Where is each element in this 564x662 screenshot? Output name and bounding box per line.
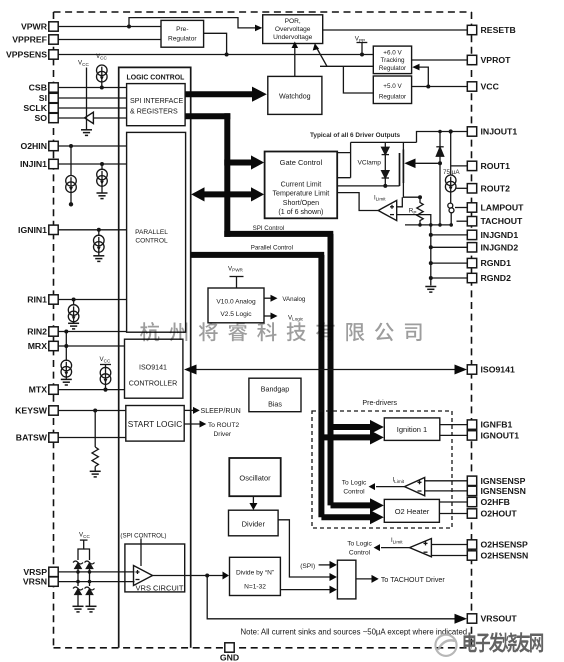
node CSB junction [100, 86, 104, 90]
pin INJGND1 [467, 230, 518, 240]
arrow VLogic [271, 313, 278, 320]
svg-text:Temperature Limit: Temperature Limit [273, 190, 330, 198]
wire SI [58, 97, 126, 99]
wire drain to rail [402, 142, 404, 150]
current source CSB pull-up [97, 65, 108, 82]
pin SI [39, 93, 58, 103]
wire RESETB [323, 29, 468, 31]
zener clamp string [382, 142, 389, 186]
wire RGND2 stub [431, 277, 468, 279]
svg-text:VCC: VCC [481, 82, 500, 92]
svg-text:INJGND2: INJGND2 [481, 242, 519, 252]
svg-text:Current Limit: Current Limit [281, 180, 322, 188]
pin VPWR [21, 22, 58, 32]
IC boundary dashed border [54, 12, 472, 648]
pin INJOUT1 [467, 127, 517, 137]
node O2HIN sink end dot [69, 202, 73, 206]
node INJGND2 [429, 245, 433, 249]
node VRSOUT branch [205, 574, 209, 578]
svg-text:ROUT2: ROUT2 [481, 183, 511, 193]
svg-text:To Logic: To Logic [342, 479, 367, 486]
pin BATSW [16, 433, 58, 443]
pin IGNSENSN [467, 486, 526, 496]
block O2 Heater [384, 499, 439, 522]
wire Vcc bar to source [105, 365, 107, 370]
wire SLEEP/RUN out [184, 409, 194, 411]
wire MTX [58, 389, 124, 391]
wire VRSP [58, 571, 134, 573]
wire INJOUT1 riser [417, 132, 468, 143]
svg-text:VClamp: VClamp [358, 160, 382, 167]
pin SCLK [23, 103, 58, 113]
arrow into POR [255, 25, 262, 32]
arrow right into gate control [251, 187, 264, 201]
wire 75uA source bottom [450, 190, 452, 203]
svg-text:ISO9141: ISO9141 [139, 364, 167, 372]
block Divide by N [230, 557, 281, 595]
arrow into divider [249, 503, 257, 510]
block Ignition 1 [384, 418, 440, 441]
ground below SO buffer [81, 130, 92, 136]
pin VRSOUT [467, 614, 517, 624]
bus SPI lower horizontal [186, 113, 231, 119]
wire VPWR [58, 26, 161, 28]
node rail 75uA [449, 223, 453, 227]
svg-text:N=1-32: N=1-32 [244, 584, 266, 591]
arrow SPI into mux [330, 561, 337, 569]
wire VPWR to POR [129, 18, 256, 28]
svg-text:SO: SO [34, 113, 47, 123]
svg-text:(SPI CONTROL): (SPI CONTROL) [120, 533, 166, 540]
current source RIN2 sink [61, 360, 72, 377]
svg-text:VRSOUT: VRSOUT [481, 614, 518, 624]
wire IGNSENSP [425, 480, 468, 482]
wire O2HFB [439, 501, 467, 503]
wire source rail bottom [405, 224, 451, 226]
wire gate control to top rail [337, 142, 350, 177]
wire VLogic out [264, 315, 272, 317]
node diode top [438, 130, 442, 134]
wire O2HIN sink tail [70, 191, 72, 203]
arrow into O2 upper [370, 498, 384, 512]
svg-text:Divide by “N”: Divide by “N” [236, 570, 274, 577]
svg-text:Regulator: Regulator [379, 65, 406, 72]
svg-text:INJOUT1: INJOUT1 [481, 127, 518, 137]
wire INJIN1 sink [101, 164, 103, 170]
pin VCC [467, 82, 499, 92]
buffer on SO line [85, 112, 94, 123]
node clamp VRSP left [76, 570, 80, 574]
pin O2HOUT [467, 509, 517, 519]
pin VPPREF [12, 35, 58, 45]
wire TACHOUT stub [457, 220, 468, 222]
transient clamp lower right [85, 587, 95, 606]
wire RIN1 sink tail [73, 320, 75, 324]
wire VPWR to regulator block [236, 277, 238, 289]
transistor Q1 channel bar [402, 150, 404, 184]
wire O2HIN [58, 145, 126, 147]
svg-text:Divider: Divider [242, 519, 266, 528]
bus Parallel Control horizontal [191, 252, 325, 258]
bus arrow O2 upper [331, 502, 372, 508]
block V10.0 Analog V2.5 Logic [208, 288, 264, 323]
svg-text:Bandgap: Bandgap [261, 386, 289, 394]
bus SPI Control horizontal [224, 231, 333, 237]
svg-text:(1 of 6 shown): (1 of 6 shown) [278, 208, 323, 216]
wire ground bus vertical [430, 225, 432, 286]
wire SO [58, 117, 84, 119]
wire IGNFB1 [440, 424, 468, 426]
node rail minus [429, 223, 433, 227]
block Pre-Regulator [161, 20, 204, 47]
arrow MOSFET body [404, 159, 415, 169]
svg-text:ROUT1: ROUT1 [481, 161, 511, 171]
node clamp VRSP right [88, 570, 92, 574]
wire VAnalog out [264, 297, 272, 299]
node Rp top [418, 195, 422, 199]
ground KEYSW [90, 471, 101, 477]
wire RIN2 sink vertical [65, 332, 67, 362]
arrow into VRSOUT pin [455, 614, 468, 624]
svg-text:Driver: Driver [214, 431, 232, 438]
arrow to logic control O2 [374, 544, 380, 551]
node RIN1 junction [72, 298, 76, 302]
svg-text:CSB: CSB [29, 83, 47, 93]
transient clamp upper left [73, 561, 83, 572]
pin O2HSENSN [467, 551, 528, 561]
svg-text:O2 Heater: O2 Heater [395, 507, 430, 516]
wire VPP sense rail right [320, 65, 373, 67]
svg-text:To Logic: To Logic [347, 540, 372, 547]
current source INJIN1 sink [97, 169, 108, 186]
node VPWR branch [127, 25, 131, 29]
wire branch to +5 regulator [343, 66, 373, 93]
ground VRS clamp left [73, 606, 84, 612]
node clamp VRSN left [76, 580, 80, 584]
pin RIN2 [27, 327, 58, 337]
svg-text:Regulator: Regulator [168, 36, 197, 43]
svg-text:+5.0 V: +5.0 V [383, 83, 402, 90]
svg-text:O2HOUT: O2HOUT [481, 509, 518, 519]
wire VRS output [153, 575, 224, 577]
svg-text:Ignition 1: Ignition 1 [397, 425, 427, 434]
svg-text:Gate Control: Gate Control [280, 158, 323, 167]
ground RIN2 [61, 379, 72, 385]
wire clamp feed right [84, 549, 90, 560]
wire comparator output to gate control [337, 193, 378, 211]
current source MTX pull-up [100, 367, 111, 384]
svg-text:Pre-: Pre- [176, 26, 188, 33]
svg-text:VRSN: VRSN [23, 577, 47, 587]
wire IGNIN1 [58, 229, 126, 231]
arrow watchdog to POR [292, 42, 299, 49]
wire Vpp to rail [361, 43, 363, 55]
block START LOGIC [126, 406, 184, 442]
wire diagonal into POR [317, 49, 327, 67]
node RGND1 [429, 261, 433, 265]
current source 75uA [445, 175, 456, 192]
wire O2 comparator output [381, 547, 410, 549]
svg-text:+6.0 V: +6.0 V [383, 50, 402, 57]
arrow into gate control [251, 155, 264, 169]
wire RIN2 sink tail [65, 375, 67, 379]
svg-text:VRS CIRCUIT: VRS CIRCUIT [136, 584, 184, 593]
wire ignition comparator output [376, 486, 405, 488]
svg-text:VPPREF: VPPREF [12, 35, 47, 45]
node VPP rail junction [225, 53, 229, 57]
svg-text:O2HSENSP: O2HSENSP [481, 540, 529, 550]
pin O2HFB [467, 497, 510, 507]
svg-text:VPWR: VPWR [21, 22, 48, 32]
svg-text:RGND1: RGND1 [481, 258, 512, 268]
node MRX crossing [64, 344, 68, 348]
watermark logo bottom right (decorative) [435, 635, 456, 656]
svg-text:SPI INTERFACE: SPI INTERFACE [130, 97, 183, 105]
wire VCC [412, 86, 468, 88]
svg-text:IGNSENSP: IGNSENSP [481, 476, 526, 486]
node RGND2 [429, 276, 433, 280]
bus SPI vertical [224, 113, 230, 237]
diode free-wheel [436, 132, 443, 225]
wire To ROUT2 out [184, 423, 200, 425]
svg-text:IGNFB1: IGNFB1 [481, 420, 513, 430]
node rail Rp [418, 223, 422, 227]
wire RGND1 stub [431, 262, 468, 264]
node INJIN1 junction [100, 162, 104, 166]
arrow ISO line left [184, 365, 197, 375]
wire IGNOUT1 [440, 434, 468, 436]
node Vpp junction [360, 53, 364, 57]
watermark center (decorative) [140, 322, 422, 341]
svg-text:RIN2: RIN2 [27, 327, 47, 337]
svg-text:Undervoltage: Undervoltage [273, 34, 313, 41]
wire O2HSENSP [431, 544, 467, 546]
pin GND [220, 643, 239, 662]
pin MRX [28, 341, 59, 351]
svg-text:Short/Open: Short/Open [283, 199, 319, 207]
wire comparator plus input [397, 197, 403, 207]
ground VRS clamp right [86, 606, 97, 612]
svg-text:CONTROLLER: CONTROLLER [129, 380, 177, 388]
svg-text:IGNSENSN: IGNSENSN [481, 486, 526, 496]
svg-text:RIN1: RIN1 [27, 295, 47, 305]
wire ISO9141 bidirectional line [187, 369, 462, 371]
node KEYSW junction [93, 409, 97, 413]
block SPI INTERFACE & REGISTERS [127, 84, 186, 126]
ground RIN1 [68, 323, 79, 329]
pin RGND1 [467, 258, 511, 268]
node zener to gate line [383, 184, 387, 188]
wire RIN1 [58, 299, 126, 301]
wire VPPSENS rail [58, 54, 373, 56]
arrow divideN into mux [330, 586, 337, 594]
current source RIN1 sink [68, 305, 79, 322]
svg-text:VPPSENS: VPPSENS [6, 50, 47, 60]
wire VRSN [58, 581, 134, 583]
svg-text:O2HSENSN: O2HSENSN [481, 551, 529, 561]
node IGNIN1 junction [97, 228, 101, 232]
bus bidirectional parallel-gate [203, 191, 253, 197]
wire KEYSW [58, 410, 126, 412]
wire VPPREF [58, 39, 161, 41]
arrow to logic control [369, 483, 375, 490]
wire body arrow line [414, 162, 440, 164]
arrow divider into mux [330, 573, 337, 581]
ground driver section [425, 287, 436, 293]
wire BATSW [58, 437, 126, 439]
op-amp ILimit driver comparator [378, 200, 397, 220]
bus SPI to watchdog [186, 91, 254, 97]
block Oscillator [229, 458, 280, 496]
arrow into ignition upper [370, 420, 384, 434]
wire IGNSENSN [425, 490, 468, 492]
svg-text:O2HFB: O2HFB [481, 497, 510, 507]
svg-text:Typical of all 6 Driver Output: Typical of all 6 Driver Outputs [310, 132, 401, 139]
wire Vcc stub through SPI lines [86, 68, 88, 130]
svg-text:IGNIN1: IGNIN1 [18, 225, 47, 235]
wire IGNIN1 sink [98, 230, 100, 236]
wire pull-up to MTX [105, 382, 107, 390]
node MTX junction [103, 388, 107, 392]
wire ROUT2 stub [456, 187, 467, 189]
wire SPI control into VRS op-amp [140, 539, 142, 567]
pin ISO9141 [467, 365, 515, 375]
pin IGNOUT1 [467, 430, 519, 440]
pin RGND2 [467, 273, 511, 283]
svg-text:SLEEP/RUN: SLEEP/RUN [201, 407, 241, 415]
svg-text:ILimit: ILimit [393, 478, 405, 484]
svg-text:SI: SI [39, 93, 47, 103]
wire clamp feed [78, 540, 84, 560]
wire SO from buffer to SPI block [93, 117, 126, 119]
pin VPPSENS [6, 50, 58, 60]
wire VRSOUT vertical [207, 576, 461, 619]
Vcc rail bar MTX [100, 364, 111, 366]
node VCC feedback junction [426, 85, 430, 89]
pin CSB [29, 83, 59, 93]
svg-text:V10.0 Analog: V10.0 Analog [216, 299, 256, 306]
svg-text:Oscillator: Oscillator [239, 474, 271, 483]
svg-text:(SPI): (SPI) [300, 563, 315, 570]
pin RIN1 [27, 295, 58, 305]
arrow VAnalog [271, 295, 278, 302]
svg-text:KEYSW: KEYSW [15, 406, 48, 416]
pin O2HIN [20, 141, 58, 151]
wire INJGND1 stub [431, 234, 468, 236]
wire INJIN1 sink tail [101, 184, 103, 193]
svg-text:IGNOUT1: IGNOUT1 [481, 430, 520, 440]
wire LAMPOUT stub [455, 207, 467, 209]
arrow mux output [372, 575, 379, 583]
wire INJGND2 stub [431, 246, 468, 248]
svg-text:LAMPOUT: LAMPOUT [481, 203, 525, 213]
svg-text:ILimit: ILimit [374, 195, 386, 201]
bus arrow into gate control upper [224, 160, 252, 166]
svg-text:TACHOUT: TACHOUT [481, 216, 524, 226]
arrow To ROUT2 [200, 421, 207, 428]
block POR Overvoltage Undervoltage [263, 15, 323, 44]
wire oscillator to divider [252, 496, 254, 504]
svg-text:INJIN1: INJIN1 [20, 159, 47, 169]
wire pre-regulator output [204, 33, 227, 54]
wire VCC feedback to tracking regulator [419, 67, 429, 86]
block Divider [229, 510, 279, 536]
svg-text:VAnalog: VAnalog [282, 296, 305, 303]
wire clamps through VRSN right [89, 572, 91, 586]
svg-text:ISO9141: ISO9141 [481, 365, 515, 375]
block ISO9141 CONTROLLER [125, 339, 183, 398]
resistor KEYSW pulldown [92, 447, 98, 467]
pin VPROT [467, 55, 511, 65]
ground INJIN1 [97, 193, 108, 199]
svg-text:Pre-drivers: Pre-drivers [362, 399, 397, 407]
wire ROUT1 stub [451, 165, 468, 167]
switch circles LAMPOUT/TACHOUT [448, 203, 454, 213]
logic control column box [119, 67, 191, 647]
wire RIN2 [58, 331, 126, 333]
wire SCLK [58, 107, 126, 109]
VPWR rail bar [230, 276, 244, 278]
block +6.0 V Tracking Regulator [373, 46, 411, 74]
arrow into tracking regulator [412, 64, 419, 71]
block Bandgap Bias [249, 378, 301, 412]
svg-text:GND: GND [220, 653, 239, 662]
svg-text:MRX: MRX [28, 341, 48, 351]
current source IGNIN1 sink [94, 235, 105, 252]
block tach mux [337, 560, 356, 599]
transient clamp upper right [85, 561, 95, 572]
svg-text:MTX: MTX [29, 385, 48, 395]
wire VPROT [412, 59, 468, 61]
node INJGND1 [429, 233, 433, 237]
svg-text:Regulator: Regulator [379, 94, 406, 101]
block +5.0 V Regulator [373, 76, 411, 104]
wire INJIN1 [58, 163, 126, 165]
pin IGNIN1 [18, 225, 58, 235]
pin RESETB [467, 25, 515, 35]
svg-text:RESETB: RESETB [481, 25, 516, 35]
svg-text:VPROT: VPROT [481, 55, 512, 65]
wire O2HIN sink [70, 146, 72, 176]
svg-text:Overvoltage: Overvoltage [275, 26, 311, 33]
arrow ISO line right [455, 365, 468, 375]
svg-text:CONTROL: CONTROL [135, 238, 168, 245]
pin ROUT1 [467, 161, 510, 171]
svg-text:POR,: POR, [285, 18, 301, 25]
svg-text:Parallel Control: Parallel Control [251, 244, 293, 251]
resistor Rp [417, 197, 423, 225]
svg-text:ILimit: ILimit [391, 538, 403, 544]
wire resistor to ground [94, 467, 96, 472]
pin KEYSW [15, 406, 58, 416]
pin LAMPOUT [467, 203, 524, 213]
pin SO [34, 113, 58, 123]
arrow into O2 lower [370, 510, 384, 524]
bus arrow ignition lower [321, 434, 371, 440]
bus SPI Control vertical [328, 234, 334, 506]
pin O2HSENSP [467, 540, 528, 550]
wire O2HSENSN [431, 555, 467, 557]
wire IGNIN1 sink tail [98, 250, 100, 256]
op-amp O2 sense comparator [410, 539, 432, 557]
bus Parallel Control vertical [318, 255, 324, 517]
transient clamp lower left [73, 587, 83, 606]
wire KEYSW to resistor [94, 411, 96, 448]
node O2HIN junction [69, 144, 73, 148]
node body line to diode [438, 161, 442, 165]
svg-text:Watchdog: Watchdog [279, 93, 311, 101]
svg-text:BATSW: BATSW [16, 433, 48, 443]
